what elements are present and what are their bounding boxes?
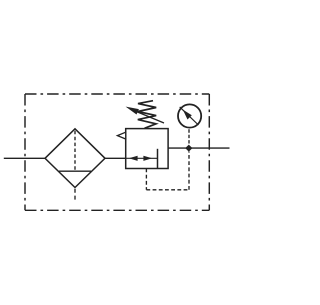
flow arrowhead right (143, 156, 152, 161)
regulator flow path line (126, 157, 158, 159)
pilot line: box bottom down (dashed) (145, 169, 147, 190)
flow arrowhead left (129, 156, 138, 161)
enclosure dash-dot border (25, 93, 209, 95)
filter element dashed centerline (74, 131, 76, 171)
pilot line: bottom horizontal (dashed) (146, 189, 189, 191)
junction node (outlet/gauge/pilot) (185, 145, 192, 152)
filter drain dashed line (74, 189, 76, 201)
gauge needle line (180, 107, 199, 125)
filter body (diamond) (45, 129, 105, 188)
adjustment arrow shaft (136, 111, 164, 123)
wire: outlet line (168, 147, 229, 149)
relief vent triangle (117, 132, 125, 139)
pressure gauge circle (178, 104, 201, 127)
gauge needle arrowhead (183, 110, 192, 120)
filter sump chord (59, 170, 91, 172)
adjustment arrowhead (126, 107, 139, 115)
regulator internal vertical bar (157, 149, 159, 169)
regulator body U1 (box) (126, 129, 168, 169)
wire: inlet line (4, 157, 45, 159)
gauge connector dashed line (188, 129, 190, 145)
pilot line: up to outlet junction (dashed) (188, 152, 190, 190)
spring (zigzag) on regulator (138, 101, 156, 129)
wire: filter to regulator (105, 157, 126, 159)
